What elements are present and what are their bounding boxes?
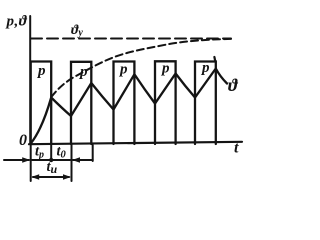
power pulse P4 <box>155 61 176 144</box>
power pulse P2 <box>71 62 91 144</box>
pulse P5 corner overshoot tick <box>213 57 216 62</box>
svg-text:p: p <box>36 63 46 79</box>
svg-text:t: t <box>234 140 239 157</box>
svg-text:p,ϑ: p,ϑ <box>5 14 28 30</box>
wire: outside arrow shaft right of t_0 <box>73 159 93 161</box>
guide line at end of pulse P2 <box>92 145 94 161</box>
wire: outside arrow shaft left of t_p <box>4 159 29 161</box>
arrowhead pointing right at t=0 guide <box>22 157 30 163</box>
dashed asymptote line theta_y <box>31 38 231 40</box>
svg-text:p: p <box>160 61 170 77</box>
wire: shaft between t_p and t_0 guides <box>32 159 70 161</box>
power pulse P3 <box>114 62 135 145</box>
t_u right arrowhead <box>63 174 71 180</box>
svg-text:tu: tu <box>47 159 58 176</box>
svg-text:p: p <box>200 60 210 76</box>
guide line at t=0 (axis extension below t-axis) <box>30 144 32 181</box>
dashed continuous-heating curve <box>51 39 231 97</box>
arrowhead pointing left at pulse P2 start guide <box>72 157 80 163</box>
junction dot at end of t_p interval <box>49 158 53 162</box>
y-axis (p, theta axis) <box>29 16 31 144</box>
power pulse P1 <box>31 62 52 145</box>
svg-text:p: p <box>78 64 88 80</box>
wire: t_u double-arrow shaft <box>33 176 69 178</box>
svg-text:p: p <box>118 62 128 78</box>
sawtooth temperature curve theta <box>31 69 227 144</box>
guide line at end of pulse P1 <box>50 144 52 160</box>
t-axis (time axis) <box>29 142 242 144</box>
t_u left arrowhead <box>31 174 39 180</box>
guide line at start of pulse P2 <box>71 144 73 181</box>
svg-text:ϑ: ϑ <box>228 75 239 95</box>
power pulse P5 <box>195 62 216 145</box>
svg-text:0: 0 <box>19 132 27 149</box>
